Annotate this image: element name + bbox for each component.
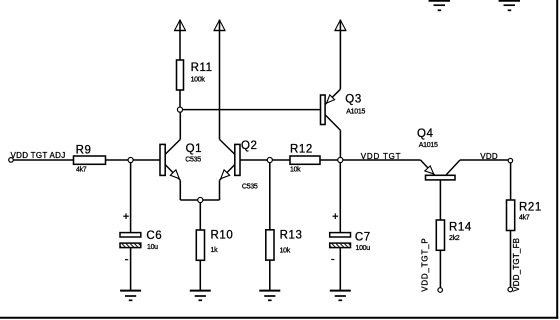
node A (R11/Q1 collector/Q3 base junction) xyxy=(177,107,182,112)
svg-text:R11: R11 xyxy=(191,62,213,74)
svg-text:A1015: A1015 xyxy=(419,142,438,149)
svg-text:VDD TGT: VDD TGT xyxy=(361,152,402,161)
Q1 emitter arrow xyxy=(170,170,179,179)
svg-text:1k: 1k xyxy=(211,247,219,254)
wire R11 bottom to node A xyxy=(179,90,181,110)
svg-text:R21: R21 xyxy=(519,202,542,214)
ground below R13 xyxy=(259,291,280,301)
svg-text:R9: R9 xyxy=(76,145,92,157)
wire Q4 collector to VDD corner node xyxy=(460,159,511,161)
svg-text:VDD_TGT_P: VDD_TGT_P xyxy=(421,237,430,291)
svg-text:4k7: 4k7 xyxy=(519,214,530,221)
wire Q4 base to R14 xyxy=(439,180,441,220)
terminal VDD TGT ADJ xyxy=(9,151,66,162)
transistor Q4 A1015 xyxy=(417,128,460,180)
wire R9 to Q1 base xyxy=(106,159,161,161)
resistor R9 4k7 xyxy=(74,145,106,174)
C6 bottom plate (hatched) xyxy=(120,243,141,248)
svg-text:4k7: 4k7 xyxy=(76,166,87,173)
VCC arrow above Q3 emitter xyxy=(334,20,346,90)
node C (R9/C6/Q1 base junction) xyxy=(128,157,133,162)
svg-text:100u: 100u xyxy=(356,245,371,252)
svg-text:Q3: Q3 xyxy=(345,94,362,106)
Q2 base bar xyxy=(235,144,240,175)
node B (Q2 base/R12/R13 junction) xyxy=(267,157,272,162)
sheet border right edge xyxy=(556,0,558,319)
ground symbol (cropped at top, x=509) xyxy=(499,1,520,11)
capacitor C6 10u (electrolytic) xyxy=(120,213,162,259)
resistor R13 10k xyxy=(266,229,303,260)
sheet border bottom edge xyxy=(0,317,558,319)
resistor R12 10k xyxy=(290,143,320,173)
svg-text:R14: R14 xyxy=(449,221,472,233)
capacitor C7 100u (electrolytic) xyxy=(330,213,371,259)
Q3 emitter lead xyxy=(325,89,340,104)
ground below C7 xyxy=(330,291,351,301)
C6 top plate xyxy=(120,233,141,237)
resistor R14 2k2 xyxy=(436,220,472,250)
Q1 base bar xyxy=(160,144,165,175)
transistor Q2 C535 xyxy=(220,139,258,200)
wire Q1/Q2 emitter rail xyxy=(180,199,219,201)
Q4 emitter arrow xyxy=(425,166,434,174)
svg-text:10k: 10k xyxy=(290,166,301,173)
C6 minus mark xyxy=(125,259,128,261)
wire node B to R12 xyxy=(270,159,290,161)
svg-text:100k: 100k xyxy=(191,77,206,84)
ground symbol (cropped at top, x=439) xyxy=(429,1,450,11)
svg-text:C535: C535 xyxy=(185,156,201,163)
wire R12 to node VDD TGT xyxy=(320,159,340,161)
svg-text:10k: 10k xyxy=(280,248,291,255)
wire R13 to ground xyxy=(269,260,271,290)
svg-text:R10: R10 xyxy=(211,229,234,241)
wire R21 to terminal VDD_TGT_FB xyxy=(510,231,512,288)
svg-text:C6: C6 xyxy=(146,230,162,242)
Q3 collector lead xyxy=(325,115,340,130)
svg-text:A1015: A1015 xyxy=(346,109,365,116)
svg-text:2k2: 2k2 xyxy=(449,235,460,242)
wire node VDD TGT to C7 xyxy=(339,160,341,233)
wire R14 to terminal VDD_TGT_P xyxy=(439,250,441,287)
svg-text:10u: 10u xyxy=(147,244,158,251)
wire node C to C6 xyxy=(130,160,132,233)
ground below R10 xyxy=(190,291,211,301)
terminal VDD_TGT_P xyxy=(438,288,443,293)
node emitter junction (Q1/Q2/R10) xyxy=(198,197,203,202)
Q1 emitter lead xyxy=(165,164,180,180)
svg-text:C535: C535 xyxy=(242,183,258,190)
Q2 emitter arrow xyxy=(221,170,230,179)
wire emitter node to R10 xyxy=(199,200,201,230)
C7 bottom plate (hatched) xyxy=(330,243,351,248)
Q4 base bar xyxy=(426,175,456,180)
Q1 collector lead xyxy=(165,139,180,154)
wire node B down to R13 xyxy=(269,160,271,230)
transistor Q3 A1015 xyxy=(321,89,366,160)
Q4 collector lead xyxy=(446,160,460,175)
Q3 emitter arrow xyxy=(327,95,335,103)
svg-text:VDD TGT ADJ: VDD TGT ADJ xyxy=(11,151,66,160)
svg-text:Q4: Q4 xyxy=(417,128,434,140)
wire Q2 base to node B xyxy=(240,159,270,161)
Q4 emitter lead xyxy=(421,160,435,175)
svg-text:VDD_TGT_FB: VDD_TGT_FB xyxy=(512,238,521,292)
wire C7 to ground xyxy=(339,248,341,290)
svg-text:VDD: VDD xyxy=(480,152,498,161)
Q2 emitter lead xyxy=(220,164,236,180)
node VDD corner xyxy=(508,158,512,162)
svg-text:Q1: Q1 xyxy=(186,143,203,155)
wire C6 to ground xyxy=(130,248,132,290)
transistor Q1 C535 xyxy=(160,110,202,200)
node VDD TGT (R12/Q3 collector/C7/Q4 junction) xyxy=(338,157,343,162)
C6 plus mark xyxy=(123,215,129,217)
resistor R10 1k xyxy=(196,229,233,260)
resistor R21 4k7 xyxy=(507,200,542,231)
Q3 base bar xyxy=(321,95,326,125)
VCC arrow above Q2 collector xyxy=(214,20,226,140)
wire terminal to R9 xyxy=(13,159,73,161)
VCC arrow above R11 xyxy=(174,20,186,61)
wire node A to Q3 base xyxy=(180,109,321,111)
resistor R11 100k xyxy=(177,60,213,90)
C7 minus mark xyxy=(331,259,334,261)
terminal VDD_TGT_FB xyxy=(508,287,513,292)
wire R10 to ground xyxy=(199,260,201,290)
svg-text:R13: R13 xyxy=(280,229,303,241)
svg-text:Q2: Q2 xyxy=(241,140,258,152)
svg-text:C7: C7 xyxy=(355,231,371,243)
wire node VDD TGT to Q4 emitter xyxy=(340,159,420,161)
C7 plus mark xyxy=(333,215,339,217)
wire VDD corner to R21 xyxy=(510,163,512,200)
svg-text:R12: R12 xyxy=(290,143,313,155)
ground below C6 xyxy=(120,291,141,301)
Q2 collector lead xyxy=(220,139,236,154)
C7 top plate xyxy=(330,233,351,237)
